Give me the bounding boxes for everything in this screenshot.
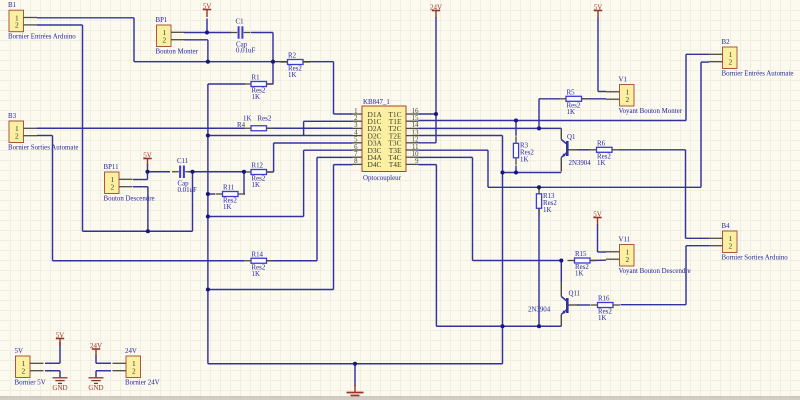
svg-text:R14: R14 [252, 251, 264, 258]
svg-text:2: 2 [21, 367, 25, 376]
svg-text:Q11: Q11 [569, 291, 581, 298]
svg-text:1K: 1K [543, 207, 551, 214]
svg-text:9: 9 [415, 158, 419, 165]
svg-text:R11: R11 [223, 185, 235, 192]
svg-text:Res2: Res2 [258, 115, 272, 122]
svg-text:24V: 24V [125, 348, 137, 355]
svg-text:Bornier Entrées Arduino: Bornier Entrées Arduino [8, 34, 76, 41]
svg-text:Bornier Sorties Arduino: Bornier Sorties Arduino [722, 255, 789, 262]
svg-text:R6: R6 [597, 140, 606, 147]
svg-text:Bornier Sorties Automate: Bornier Sorties Automate [8, 145, 78, 152]
svg-text:Optocoupleur: Optocoupleur [363, 175, 402, 182]
svg-text:Bornier Entrées Automate: Bornier Entrées Automate [722, 71, 794, 78]
svg-text:0.01uF: 0.01uF [236, 48, 256, 55]
svg-text:Res2: Res2 [520, 150, 534, 157]
svg-text:Bornier 5V: Bornier 5V [15, 380, 46, 387]
svg-text:2: 2 [15, 132, 19, 141]
svg-text:1K: 1K [243, 115, 251, 122]
svg-text:B2: B2 [722, 39, 731, 46]
svg-text:2: 2 [728, 58, 732, 67]
svg-text:V1: V1 [619, 77, 628, 84]
svg-text:R12: R12 [252, 163, 264, 170]
svg-text:R16: R16 [598, 296, 610, 303]
svg-text:1K: 1K [575, 271, 583, 278]
svg-text:1K: 1K [252, 182, 260, 189]
svg-text:2N3904: 2N3904 [528, 307, 551, 314]
svg-text:GND: GND [88, 384, 103, 392]
svg-text:8: 8 [354, 158, 358, 165]
svg-text:C1: C1 [236, 19, 245, 26]
svg-text:6: 6 [354, 144, 358, 151]
svg-text:1K: 1K [597, 160, 605, 167]
svg-text:Voyant Bouton Descendre: Voyant Bouton Descendre [619, 268, 691, 275]
svg-text:2N3904: 2N3904 [569, 160, 592, 167]
svg-text:B3: B3 [8, 113, 17, 120]
svg-text:5: 5 [354, 137, 358, 144]
svg-text:3: 3 [354, 122, 358, 129]
svg-text:R13: R13 [543, 193, 555, 200]
svg-text:D4C: D4C [368, 160, 382, 169]
svg-text:B1: B1 [8, 2, 17, 9]
svg-text:1K: 1K [252, 94, 260, 101]
svg-text:12: 12 [412, 137, 419, 144]
svg-text:2: 2 [625, 255, 629, 264]
svg-text:Bornier 24V: Bornier 24V [125, 380, 160, 387]
svg-text:2: 2 [162, 36, 166, 45]
svg-text:V11: V11 [619, 237, 631, 244]
svg-text:R1: R1 [252, 75, 261, 82]
svg-text:1: 1 [354, 108, 357, 115]
svg-text:Voyant Bouton Monter: Voyant Bouton Monter [619, 108, 683, 115]
svg-text:2: 2 [354, 115, 358, 122]
svg-text:1K: 1K [223, 204, 231, 211]
svg-text:7: 7 [354, 151, 358, 158]
svg-text:B4: B4 [722, 223, 731, 230]
svg-text:Bouton Descendre: Bouton Descendre [104, 196, 155, 203]
svg-text:1K: 1K [288, 72, 296, 79]
svg-text:1K: 1K [598, 315, 606, 322]
svg-text:10: 10 [412, 151, 419, 158]
svg-text:T4E: T4E [389, 160, 402, 169]
svg-text:BP11: BP11 [104, 164, 120, 171]
svg-text:R15: R15 [575, 251, 587, 258]
svg-text:Q1: Q1 [567, 134, 576, 141]
svg-text:Res2: Res2 [543, 200, 557, 207]
svg-text:2: 2 [15, 21, 19, 30]
svg-text:16: 16 [412, 108, 419, 115]
svg-text:4: 4 [354, 129, 358, 136]
svg-text:13: 13 [412, 129, 419, 136]
svg-text:R4: R4 [237, 122, 246, 129]
svg-text:2: 2 [728, 242, 732, 251]
svg-text:2: 2 [625, 95, 629, 104]
svg-text:14: 14 [412, 122, 419, 129]
svg-text:2: 2 [110, 183, 114, 192]
svg-text:15: 15 [412, 115, 419, 122]
svg-text:R2: R2 [288, 53, 297, 60]
svg-text:1K: 1K [520, 157, 528, 164]
svg-text:1K: 1K [567, 109, 575, 116]
svg-text:Bouton Monter: Bouton Monter [156, 49, 199, 56]
svg-text:GND: GND [52, 384, 67, 392]
svg-text:BP1: BP1 [156, 17, 168, 24]
svg-text:C11: C11 [177, 158, 189, 165]
svg-text:KB847_1: KB847_1 [363, 99, 390, 106]
svg-text:R3: R3 [520, 143, 529, 150]
svg-text:1K: 1K [252, 271, 260, 278]
svg-text:11: 11 [412, 144, 419, 151]
svg-text:R5: R5 [567, 89, 576, 96]
svg-text:5V: 5V [15, 348, 23, 355]
svg-text:0.01uF: 0.01uF [178, 187, 198, 194]
svg-text:2: 2 [132, 367, 136, 376]
